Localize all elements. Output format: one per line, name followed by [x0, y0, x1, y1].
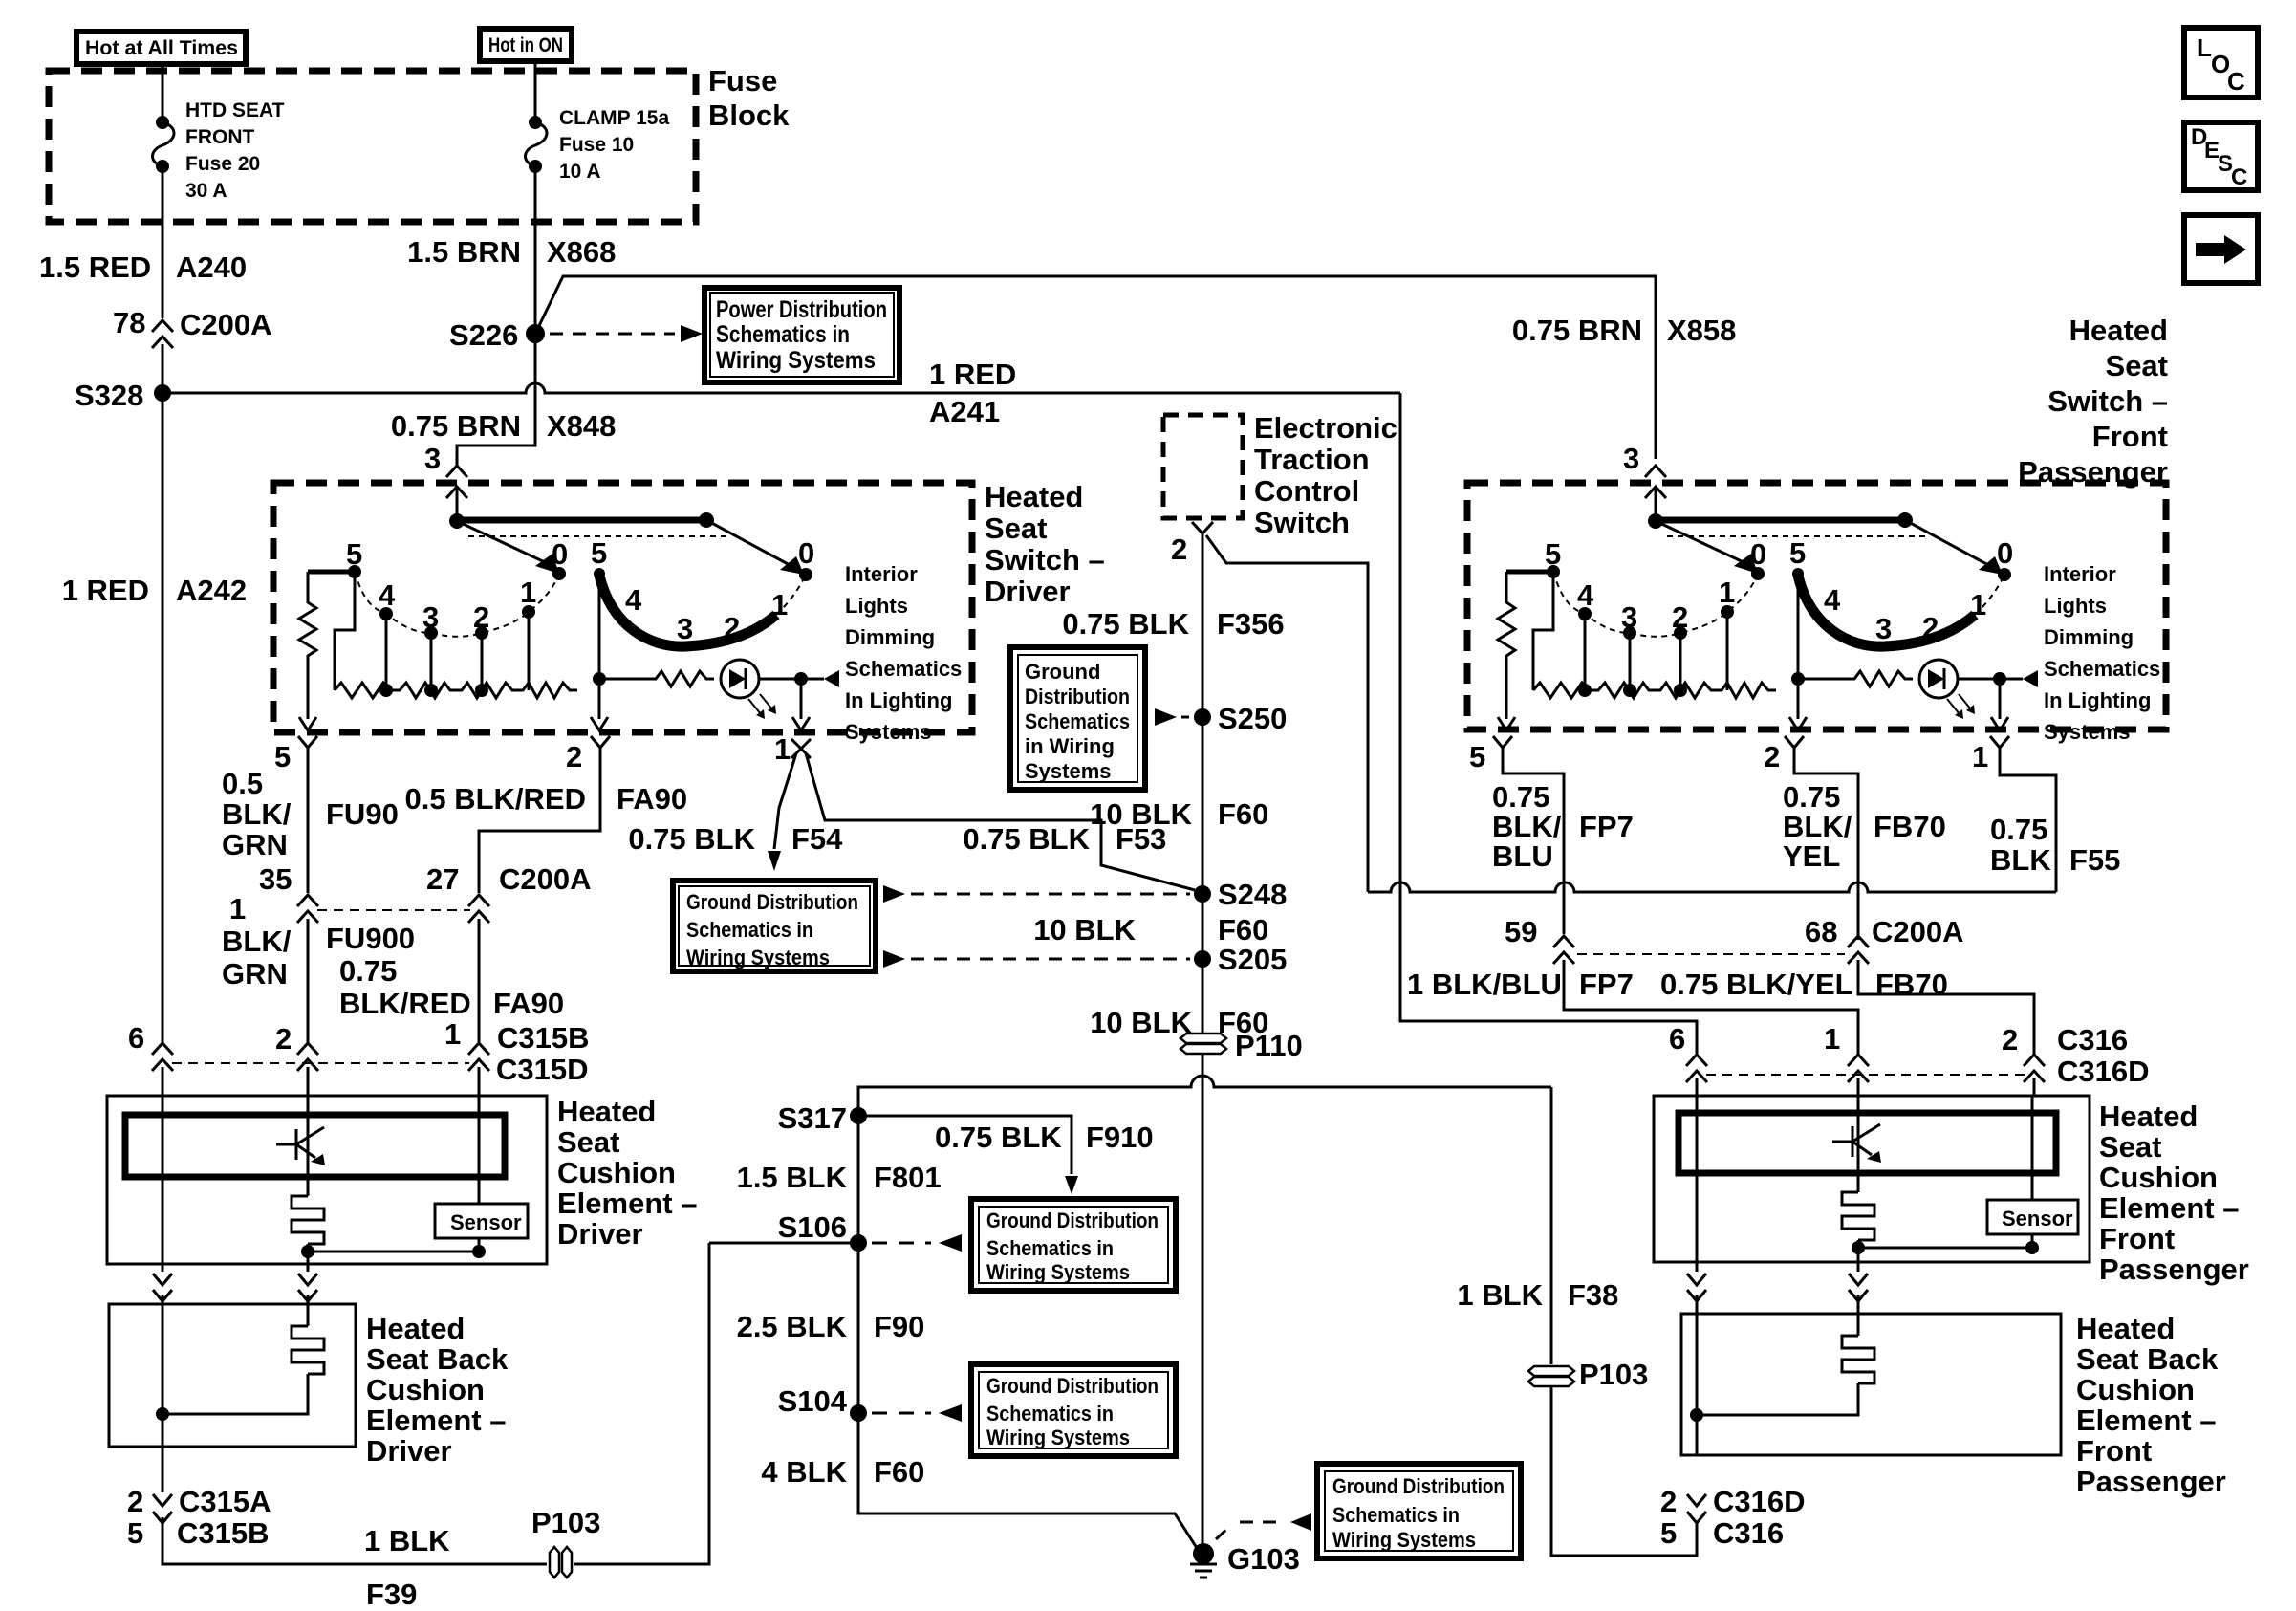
svg-text:A240: A240: [176, 250, 247, 284]
svg-text:10 A: 10 A: [559, 161, 601, 183]
thermostat symbol: [1832, 1124, 1880, 1157]
node S248: [1194, 885, 1211, 903]
svg-text:0.75 BLK: 0.75 BLK: [963, 822, 1090, 856]
svg-text:2: 2: [724, 611, 740, 644]
pin 5 connector below driver switch: [298, 736, 317, 748]
wiper arrow to position 0 (left half): [1656, 521, 1745, 563]
svg-text:Wiring Systems: Wiring Systems: [986, 1426, 1130, 1449]
svg-text:Cushion: Cushion: [366, 1373, 485, 1406]
svg-text:Schematics: Schematics: [1025, 709, 1130, 733]
wire FB70 0.75 BLK/YEL: [1794, 748, 1858, 940]
wire F910 0.75 BLK: [858, 1116, 1072, 1174]
svg-text:Heated: Heated: [2076, 1312, 2175, 1345]
dashed reference arrow from S106: [872, 1242, 931, 1245]
svg-text:Heated: Heated: [366, 1312, 465, 1345]
svg-text:F910: F910: [1086, 1121, 1154, 1154]
LED indicator lamp: [1919, 660, 1958, 698]
svg-text:2: 2: [1764, 740, 1780, 773]
svg-text:68: 68: [1805, 915, 1837, 948]
svg-text:Seat Back: Seat Back: [2076, 1342, 2219, 1376]
wire F801 1.5 BLK: [857, 1116, 860, 1243]
wire F38 below P103: [1551, 1386, 1697, 1556]
wire FU90 0.5 BLK/GRN: [307, 748, 310, 893]
step wire from 5 to ladder: [1533, 572, 1553, 690]
svg-text:1: 1: [771, 588, 788, 621]
svg-text:2: 2: [473, 600, 489, 634]
reference box: Ground Distribution Schematics in Wiring Systems (G103): [1317, 1464, 1521, 1558]
wire 5 to lamp junction: [1797, 574, 1800, 679]
ladder tap wires: [1584, 614, 1587, 690]
svg-text:2: 2: [1171, 533, 1187, 566]
svg-text:Fuse: Fuse: [708, 64, 777, 98]
heavy wiper contact arc: [1798, 576, 1975, 646]
svg-text:3: 3: [677, 612, 693, 645]
svg-text:Heated: Heated: [2099, 1099, 2198, 1133]
wire F60 10 BLK: [1202, 717, 1204, 894]
dashed reference arrow S226 to Power Distribution: [550, 333, 675, 336]
wire FP7 1 BLK/BLU to C316 pin1: [1564, 960, 1858, 1056]
svg-text:0.75 BLK: 0.75 BLK: [1062, 607, 1189, 641]
svg-text:5: 5: [274, 740, 291, 773]
wire F55 0.75 BLK: [2000, 748, 2056, 892]
svg-text:L: L: [2197, 33, 2212, 62]
svg-text:F39: F39: [366, 1578, 417, 1611]
svg-text:in Wiring: in Wiring: [1025, 734, 1115, 758]
heater bar: [1679, 1113, 2056, 1173]
svg-text:Traction: Traction: [1254, 443, 1370, 476]
pin 5 connector below passenger switch: [1493, 736, 1512, 748]
svg-text:C315A: C315A: [179, 1485, 271, 1518]
svg-text:1: 1: [1970, 588, 1986, 621]
svg-text:59: 59: [1505, 915, 1537, 948]
resistor R4 (vertical ballast): [1498, 572, 1515, 719]
node S226: [526, 324, 545, 343]
dashed reference arrow from G103: [1216, 1522, 1285, 1539]
dashed reference arrow from S104: [872, 1412, 931, 1415]
svg-text:Schematics in: Schematics in: [716, 321, 850, 348]
svg-text:F90: F90: [874, 1310, 924, 1343]
sensor box: [435, 1204, 528, 1238]
svg-text:4 BLK: 4 BLK: [761, 1455, 847, 1489]
svg-text:Control: Control: [1254, 474, 1359, 508]
svg-text:Seat: Seat: [2106, 349, 2168, 382]
svg-text:C: C: [2231, 164, 2247, 190]
svg-text:78: 78: [113, 306, 145, 339]
wiper travel dashed line: [468, 535, 729, 537]
svg-text:Seat: Seat: [2099, 1130, 2161, 1164]
svg-text:BLK/: BLK/: [1492, 810, 1562, 843]
wires through bar: [1696, 1096, 1699, 1262]
svg-text:Electronic: Electronic: [1254, 411, 1397, 445]
svg-text:4: 4: [379, 578, 396, 612]
svg-text:F60: F60: [1218, 913, 1268, 947]
feed to ballast resistor: [308, 570, 355, 575]
svg-text:Systems: Systems: [845, 720, 932, 744]
svg-text:0: 0: [1750, 537, 1766, 571]
rotary dashed arc left half: [1553, 572, 1758, 637]
ground rail to ETCS with hops: [1368, 882, 2056, 892]
svg-text:F55: F55: [2069, 843, 2120, 877]
wire into passenger switch: [1655, 487, 1657, 521]
heated seat cushion element driver (outer box): [107, 1096, 547, 1264]
svg-text:Dimming: Dimming: [2044, 625, 2134, 649]
nav box DESC: [2184, 122, 2258, 190]
fuse block (dashed box): [49, 71, 696, 222]
svg-text:A241: A241: [929, 395, 1000, 428]
reference box: Ground Distribution Schematics in Wiring Systems (left): [673, 881, 876, 971]
svg-text:Passenger: Passenger: [2099, 1252, 2249, 1286]
svg-text:Distribution: Distribution: [1025, 685, 1130, 708]
svg-text:C315D: C315D: [496, 1053, 589, 1086]
svg-text:Front: Front: [2092, 420, 2168, 453]
svg-text:In Lighting: In Lighting: [845, 688, 952, 712]
label box: Hot at All Times: [76, 32, 246, 64]
exit connectors below element: [153, 1264, 172, 1304]
node S328: [154, 384, 171, 402]
svg-text:F801: F801: [874, 1161, 942, 1194]
svg-text:YEL: YEL: [1783, 839, 1840, 873]
inline connector dashed link: [172, 1062, 469, 1064]
node S106: [850, 1234, 867, 1252]
svg-text:Wiring Systems: Wiring Systems: [1332, 1528, 1476, 1552]
driver heated seat switch (dashed box): [273, 483, 972, 732]
feed to ballast resistor: [1506, 570, 1553, 575]
LED light rays: [748, 699, 761, 714]
svg-text:S317: S317: [778, 1101, 847, 1135]
inline connector dashed link: [1706, 1074, 2025, 1076]
heating element (square wave): [292, 1326, 324, 1374]
heavy wiper contact arc: [599, 576, 776, 646]
resistor ladder R5 (horizontal): [1533, 683, 1776, 698]
svg-text:FRONT: FRONT: [185, 126, 254, 148]
reference box: Ground Distribution Schematics in Wiring Systems (tall): [1010, 647, 1145, 790]
svg-text:FB70: FB70: [1874, 810, 1946, 843]
svg-text:0: 0: [1997, 536, 2013, 570]
wire into driver switch: [456, 487, 459, 521]
svg-text:2: 2: [1672, 600, 1688, 634]
wires through bar: [162, 1096, 164, 1264]
svg-text:C316: C316: [2057, 1023, 2128, 1056]
wire F39 right of P103: [574, 1243, 709, 1564]
element bottom link: [1852, 1241, 1865, 1254]
svg-text:FU900: FU900: [326, 922, 415, 955]
svg-text:Lights: Lights: [2044, 594, 2107, 618]
svg-text:X868: X868: [547, 235, 616, 269]
svg-text:FB70: FB70: [1875, 968, 1948, 1001]
svg-text:Hot in ON: Hot in ON: [488, 34, 563, 56]
svg-text:Passenger: Passenger: [2076, 1465, 2226, 1498]
svg-text:Fuse 10: Fuse 10: [559, 134, 634, 156]
wire FB70 0.75 BLK/YEL to C316 pin2: [1858, 960, 2034, 1056]
inline connector dashed link: [1577, 953, 1845, 955]
reference box: Ground Distribution Schematics in Wiring Systems (S106): [971, 1199, 1176, 1291]
svg-text:Heated: Heated: [557, 1095, 656, 1128]
svg-text:0.75: 0.75: [1783, 780, 1840, 814]
svg-text:GRN: GRN: [222, 828, 288, 861]
svg-text:C316D: C316D: [1713, 1485, 1806, 1518]
svg-text:1: 1: [1719, 576, 1735, 609]
label box: Hot in ON: [480, 29, 572, 61]
dimming reference arrow: [824, 670, 839, 687]
svg-text:2: 2: [1922, 611, 1939, 644]
svg-text:Schematics in: Schematics in: [1332, 1503, 1460, 1527]
svg-text:5: 5: [346, 537, 362, 571]
svg-text:Front: Front: [2076, 1434, 2152, 1468]
reference box: Ground Distribution Schematics in Wiring Systems (S104): [971, 1364, 1176, 1456]
svg-text:1.5 BRN: 1.5 BRN: [407, 235, 521, 269]
fuse F1: HTD SEAT FRONT Fuse 20 30A: [156, 116, 169, 129]
svg-text:Driver: Driver: [557, 1217, 643, 1251]
wire LED to pin1 junction: [1958, 678, 2023, 681]
svg-text:1.5 RED: 1.5 RED: [39, 250, 151, 284]
rotary positions left half: dots: [348, 565, 361, 578]
svg-text:In Lighting: In Lighting: [2044, 688, 2151, 712]
wires inside: [1696, 1314, 1699, 1455]
svg-text:P110: P110: [1235, 1029, 1303, 1062]
wire F90 2.5 BLK: [857, 1243, 860, 1413]
heating element (square wave): [1842, 1192, 1874, 1240]
rotary positions left half: dots: [1547, 565, 1560, 578]
heated seat cushion element front passenger (outer box): [1654, 1096, 2090, 1262]
svg-text:FA90: FA90: [493, 987, 564, 1020]
svg-text:Switch –: Switch –: [2047, 384, 2168, 418]
svg-text:Hot at All Times: Hot at All Times: [85, 37, 238, 59]
svg-text:Dimming: Dimming: [845, 625, 935, 649]
svg-text:4: 4: [1577, 578, 1594, 612]
node S104: [850, 1404, 867, 1422]
S106 left branch: [709, 1242, 858, 1245]
wire: ETCS branch to F55: [1206, 535, 1368, 892]
wire F38 1 BLK from ground rail: [1550, 1087, 1553, 1364]
svg-text:0: 0: [552, 537, 568, 571]
svg-text:1 RED: 1 RED: [62, 574, 149, 607]
wire: X858 0.75 BRN branch from S226 to passenger switch: [535, 276, 1656, 459]
passenger heated seat switch (dashed box): [1467, 483, 2166, 729]
svg-text:Cushion: Cushion: [557, 1156, 676, 1189]
svg-text:5: 5: [1789, 536, 1806, 570]
svg-text:G103: G103: [1227, 1542, 1300, 1576]
dimming reference arrow: [2023, 670, 2038, 687]
svg-text:FU90: FU90: [326, 797, 399, 831]
svg-text:Ground: Ground: [1025, 660, 1100, 684]
svg-text:Interior: Interior: [2044, 562, 2116, 586]
svg-text:Schematics in: Schematics in: [986, 1236, 1114, 1260]
svg-text:CLAMP 15a: CLAMP 15a: [559, 107, 669, 129]
svg-text:Power Distribution: Power Distribution: [716, 296, 887, 323]
svg-text:1.5 BLK: 1.5 BLK: [737, 1161, 848, 1194]
wire: X868 1.5 BRN: [534, 166, 537, 334]
svg-text:0.75: 0.75: [339, 954, 397, 988]
svg-text:Seat: Seat: [557, 1125, 619, 1159]
svg-text:C315B: C315B: [177, 1516, 270, 1550]
wiper arrow to position 0 (left half): [457, 521, 547, 563]
pin 2 exit wire and arrow: [598, 679, 601, 719]
ground junction G103: [1193, 1543, 1214, 1564]
wiper arrow to position 0 (right half): [706, 520, 791, 566]
svg-text:C: C: [2227, 67, 2245, 96]
svg-text:A242: A242: [176, 574, 247, 607]
svg-text:Ground Distribution: Ground Distribution: [1332, 1474, 1505, 1498]
svg-text:S106: S106: [778, 1210, 847, 1244]
svg-text:0.75 BRN: 0.75 BRN: [391, 409, 521, 443]
svg-text:FP7: FP7: [1579, 968, 1634, 1001]
svg-text:2: 2: [566, 740, 582, 773]
svg-text:Seat: Seat: [985, 512, 1047, 545]
svg-text:5: 5: [1660, 1516, 1677, 1550]
svg-text:P103: P103: [1579, 1358, 1648, 1391]
svg-text:S205: S205: [1218, 943, 1287, 976]
svg-text:1 BLK: 1 BLK: [1457, 1278, 1543, 1312]
svg-text:Switch: Switch: [1254, 506, 1350, 539]
svg-text:0.5: 0.5: [222, 767, 263, 800]
svg-text:1: 1: [520, 576, 536, 609]
node S250: [1194, 708, 1211, 726]
pin 1 connector below passenger switch: [1990, 736, 2009, 748]
svg-text:35: 35: [259, 862, 292, 896]
svg-text:F356: F356: [1217, 607, 1285, 641]
node S317: [850, 1107, 867, 1124]
svg-text:10 BLK: 10 BLK: [1090, 797, 1192, 831]
pin 1 exit wire and arrow: [1999, 679, 2002, 719]
svg-text:3: 3: [1875, 612, 1892, 645]
inline connector dashed link: [317, 909, 470, 911]
svg-text:3: 3: [424, 442, 441, 475]
svg-text:Schematics in: Schematics in: [686, 918, 813, 942]
resistor R6 (lamp series): [1798, 671, 1913, 686]
wire: Hot at All Times feed: [162, 64, 164, 122]
exit connectors below element: [1687, 1262, 1706, 1314]
heating element (square wave): [1842, 1336, 1874, 1383]
wires into passenger element box: [1696, 1078, 1699, 1096]
wire 5 to lamp junction: [598, 574, 601, 679]
svg-text:Front: Front: [2099, 1222, 2175, 1255]
svg-text:6: 6: [1669, 1022, 1685, 1056]
svg-text:Driver: Driver: [985, 575, 1071, 608]
svg-text:Heated: Heated: [985, 480, 1083, 513]
svg-text:Systems: Systems: [1025, 759, 1112, 783]
wire FA90 0.5 BLK/RED: [479, 748, 600, 893]
switch wiper node: [1648, 513, 1663, 529]
svg-text:X848: X848: [547, 409, 616, 443]
svg-text:Element –: Element –: [366, 1404, 506, 1437]
svg-text:Cushion: Cushion: [2099, 1161, 2218, 1194]
svg-text:0.75 BLK: 0.75 BLK: [935, 1121, 1062, 1154]
svg-text:4: 4: [1824, 583, 1841, 617]
resistor R1 (vertical ballast): [299, 572, 316, 719]
svg-text:F54: F54: [791, 822, 843, 856]
svg-text:Ground Distribution: Ground Distribution: [986, 1208, 1159, 1232]
wire: Hot in ON feed: [534, 61, 537, 122]
LED light rays: [1947, 699, 1960, 714]
wire: A240 1.5 RED: [162, 166, 164, 318]
svg-text:0.75: 0.75: [1990, 813, 2047, 846]
pass-through grommet P110: [1180, 1034, 1226, 1043]
svg-text:0: 0: [798, 536, 814, 570]
wire: S328 to A241 horizontal with hop over BRN wire: [162, 383, 1400, 393]
wire F60 below P110 to G103: [1202, 1054, 1204, 1549]
ladder tap junction dots: [1578, 684, 1592, 697]
sensor box: [1987, 1200, 2078, 1234]
svg-text:C200A: C200A: [1872, 915, 1964, 948]
resistor ladder R2 (horizontal): [335, 683, 577, 698]
svg-text:C200A: C200A: [499, 862, 592, 896]
svg-text:F60: F60: [1218, 797, 1268, 831]
svg-text:0.75: 0.75: [1492, 780, 1549, 814]
svg-text:S248: S248: [1218, 878, 1287, 911]
pass-through grommet P103 (right): [1528, 1366, 1574, 1376]
heater bar: [125, 1115, 505, 1177]
wire: A240 below C200A to S328: [162, 344, 164, 1042]
svg-text:10 BLK: 10 BLK: [1090, 1006, 1192, 1039]
svg-text:0.75 BLK/YEL: 0.75 BLK/YEL: [1660, 968, 1853, 1001]
svg-text:5: 5: [591, 536, 607, 570]
svg-text:0.5 BLK/RED: 0.5 BLK/RED: [405, 782, 586, 816]
svg-text:30 A: 30 A: [185, 180, 227, 202]
dashed reference arrow to S205: [883, 950, 905, 968]
svg-text:Switch –: Switch –: [985, 543, 1105, 577]
ground symbol: [1190, 1564, 1217, 1578]
wire F53 0.75 BLK: [806, 753, 1195, 890]
wire A241 down right side with hop: [1400, 393, 1697, 1056]
nav box arrow: [2184, 215, 2258, 283]
switch wiper node: [449, 513, 465, 529]
wiper travel dashed line: [1667, 535, 1928, 537]
svg-text:BLK: BLK: [1990, 843, 2051, 877]
wire F60 10 BLK to P110: [1202, 959, 1204, 1033]
svg-text:C315B: C315B: [497, 1021, 590, 1055]
svg-text:S104: S104: [778, 1384, 848, 1418]
rotary dashed arc left half: [355, 572, 559, 637]
svg-text:1: 1: [1824, 1022, 1840, 1056]
svg-text:Heated: Heated: [2069, 314, 2168, 347]
wire FA90 0.75 BLK/RED: [478, 919, 481, 1042]
svg-text:0.75 BRN: 0.75 BRN: [1512, 314, 1642, 347]
svg-text:Schematics: Schematics: [2044, 657, 2160, 681]
svg-text:4: 4: [625, 583, 642, 617]
svg-text:Ground Distribution: Ground Distribution: [686, 890, 858, 914]
pin 1 exit wire and arrow: [800, 679, 803, 719]
svg-text:Lights: Lights: [845, 594, 908, 618]
svg-text:27: 27: [426, 862, 459, 896]
svg-text:1: 1: [1972, 740, 1988, 773]
dashed arc to 0 (right half): [776, 575, 806, 615]
wire FU900 1 BLK/GRN: [307, 919, 310, 1042]
node S205: [1194, 950, 1211, 968]
svg-text:5: 5: [1545, 537, 1561, 571]
svg-text:Ground Distribution: Ground Distribution: [986, 1374, 1159, 1398]
svg-text:Interior: Interior: [845, 562, 918, 586]
pin 5 exit arrow: [299, 717, 316, 730]
wire: X848 0.75 BRN below S226: [457, 334, 535, 465]
nav box LOC: [2184, 28, 2258, 98]
svg-text:Element –: Element –: [2076, 1404, 2216, 1437]
svg-text:3: 3: [422, 600, 439, 634]
wiper bar: [457, 517, 706, 524]
resistor R3 (lamp series): [599, 671, 714, 686]
svg-text:2: 2: [127, 1485, 143, 1518]
svg-text:S226: S226: [449, 318, 518, 352]
svg-text:BLK/RED: BLK/RED: [339, 987, 471, 1020]
svg-text:C200A: C200A: [180, 308, 272, 341]
dashed reference arrow to S248: [883, 885, 905, 903]
electronic traction control switch (dashed box): [1163, 415, 1243, 518]
svg-text:Driver: Driver: [366, 1434, 452, 1468]
svg-text:3: 3: [1621, 600, 1637, 634]
svg-text:BLK/: BLK/: [1783, 810, 1852, 843]
svg-text:1: 1: [444, 1017, 461, 1051]
pin 2 connector below passenger switch: [1785, 736, 1804, 748]
svg-text:Wiring Systems: Wiring Systems: [716, 347, 876, 374]
